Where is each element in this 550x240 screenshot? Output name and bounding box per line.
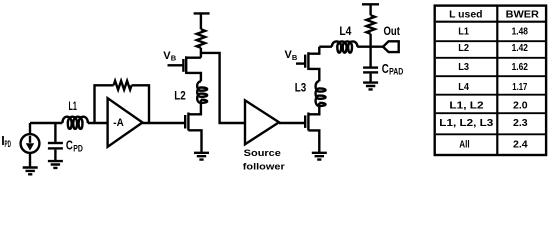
svg-text:2.4: 2.4 bbox=[513, 139, 528, 151]
svg-text:BWER: BWER bbox=[506, 8, 540, 20]
svg-text:L2: L2 bbox=[458, 42, 469, 54]
svg-text:PD: PD bbox=[73, 143, 83, 153]
svg-text:follower: follower bbox=[243, 162, 285, 173]
svg-text:L1, L2, L3: L1, L2, L3 bbox=[439, 117, 493, 129]
svg-text:PD: PD bbox=[5, 139, 12, 149]
svg-text:L2: L2 bbox=[174, 88, 186, 102]
svg-text:PAD: PAD bbox=[389, 67, 404, 77]
svg-text:1.48: 1.48 bbox=[512, 25, 528, 37]
svg-text:Out: Out bbox=[384, 24, 400, 38]
svg-text:L used: L used bbox=[449, 8, 482, 20]
svg-text:1.42: 1.42 bbox=[512, 42, 528, 54]
svg-text:Source: Source bbox=[244, 148, 281, 159]
svg-text:All: All bbox=[459, 139, 469, 151]
svg-text:2.3: 2.3 bbox=[513, 117, 528, 129]
svg-text:-A: -A bbox=[113, 117, 123, 129]
svg-text:C: C bbox=[382, 62, 389, 76]
svg-text:B: B bbox=[171, 53, 177, 62]
svg-text:2.0: 2.0 bbox=[513, 100, 528, 112]
svg-text:C: C bbox=[66, 139, 73, 153]
svg-text:1.62: 1.62 bbox=[512, 61, 528, 73]
svg-text:B: B bbox=[292, 53, 298, 62]
svg-text:L4: L4 bbox=[458, 81, 469, 93]
svg-text:1.17: 1.17 bbox=[512, 81, 527, 93]
svg-text:L1, L2: L1, L2 bbox=[449, 100, 483, 112]
svg-text:L4: L4 bbox=[339, 24, 351, 38]
svg-text:L3: L3 bbox=[295, 80, 307, 94]
svg-text:L3: L3 bbox=[458, 61, 469, 73]
svg-text:L1: L1 bbox=[69, 99, 78, 113]
svg-text:L1: L1 bbox=[458, 25, 469, 37]
